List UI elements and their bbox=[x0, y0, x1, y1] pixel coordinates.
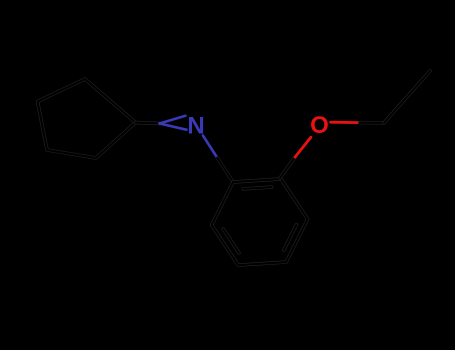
wire C7 to imine apex bbox=[136, 123, 160, 124]
bond CH2-CH3 bbox=[384, 71, 430, 123]
svg-text:O: O bbox=[310, 112, 329, 139]
bond C2-O bbox=[280, 157, 295, 178]
cyclopentylidene ring bbox=[38, 79, 136, 158]
benzene ring bbox=[212, 179, 308, 265]
C=N double bond (blue halves) bbox=[160, 116, 187, 130]
bond O-CH2 bbox=[331, 121, 360, 124]
bond N-C1 bbox=[203, 136, 218, 159]
